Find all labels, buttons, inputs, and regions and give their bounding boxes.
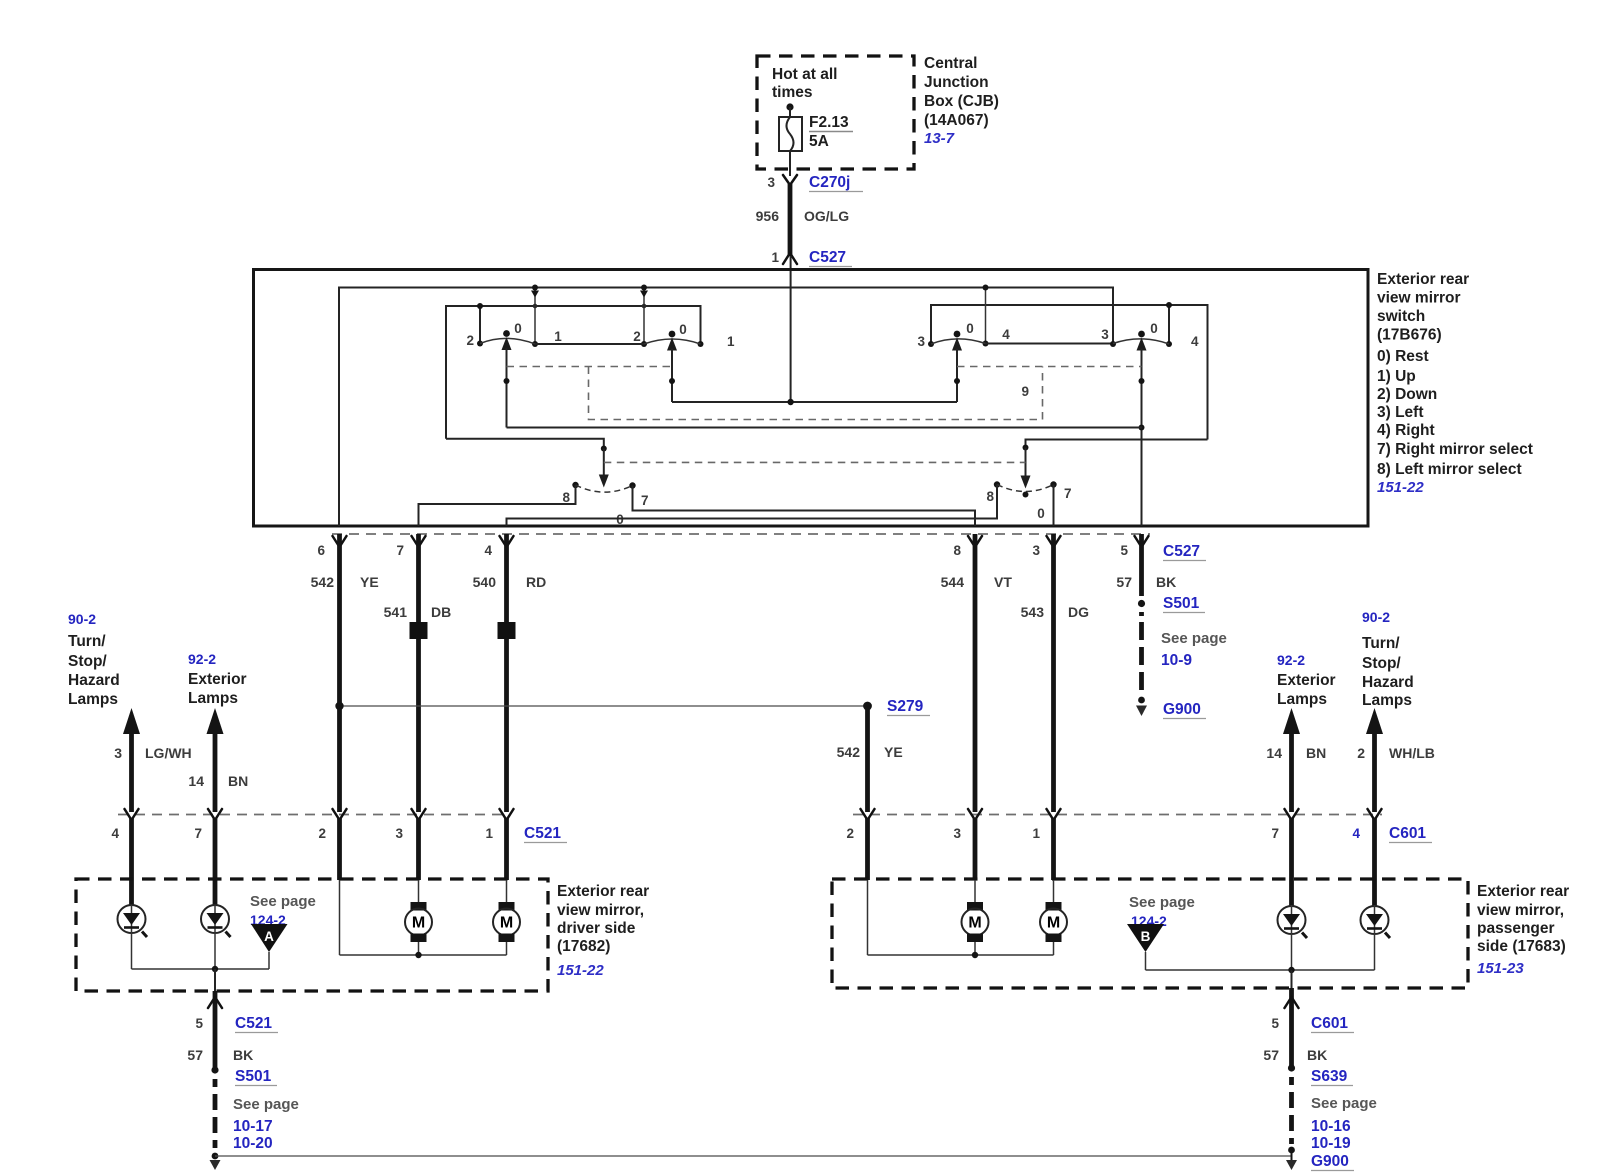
svg-text:LG/WH: LG/WH: [145, 745, 192, 761]
indicator lamp L2 (driver exterior): [201, 905, 231, 969]
Exterior rear view mirror switch enclosure (17B676): [254, 270, 1369, 527]
svg-text:Exterior rear: Exterior rear: [1377, 271, 1469, 288]
svg-text:0) Rest: 0) Rest: [1377, 348, 1429, 365]
svg-text:540: 540: [473, 574, 497, 590]
wire 544 VT (pin 8): [941, 534, 1013, 812]
svg-text:7: 7: [194, 826, 202, 841]
svg-text:C527: C527: [1163, 543, 1200, 560]
wire 57 BK to S639: [1263, 1047, 1376, 1152]
svg-text:10-17: 10-17: [233, 1118, 273, 1135]
svg-text:(17B676): (17B676): [1377, 327, 1442, 344]
svg-text:5: 5: [195, 1016, 203, 1031]
svg-text:0: 0: [679, 322, 687, 337]
svg-text:2: 2: [1357, 745, 1365, 761]
node: right rail y305: [928, 305, 1208, 440]
svg-text:Hazard: Hazard: [1362, 674, 1414, 691]
passenger motors common: [868, 880, 1054, 958]
wire 541 DB (pin 7) with splice: [384, 534, 452, 812]
svg-text:BN: BN: [228, 773, 248, 789]
left feeds: 92-2 Exterior Lamps: [188, 651, 247, 707]
ground reference triangle B: [1127, 894, 1195, 970]
switch contact bar 2 (left pair): [477, 303, 483, 347]
Exterior rear view mirror driver side dashed box: [76, 879, 548, 991]
svg-text:3) Left: 3) Left: [1377, 404, 1424, 421]
svg-text:M: M: [968, 915, 981, 932]
wire 57 BK (pin 5) to S501/G900: [1116, 534, 1226, 719]
svg-text:4: 4: [1191, 334, 1199, 349]
svg-text:WH/LB: WH/LB: [1389, 745, 1435, 761]
svg-text:3: 3: [917, 334, 925, 349]
svg-text:side (17683): side (17683): [1477, 938, 1566, 955]
selector B contact 8 lead to pin 4 wire: [507, 485, 998, 527]
svg-text:8: 8: [953, 543, 961, 558]
wire 14 BN up-arrow: [188, 708, 248, 812]
svg-text:C601: C601: [1389, 825, 1426, 842]
svg-text:C527: C527: [809, 249, 846, 266]
wire 543 DG (pin 3): [1021, 534, 1089, 812]
motor M4 passenger horizontal: [1040, 880, 1067, 955]
svg-text:BK: BK: [233, 1047, 253, 1063]
wire 14 BN up-arrow (passenger): [1266, 708, 1326, 812]
svg-text:G900: G900: [1311, 1153, 1349, 1170]
center feed junction: [672, 399, 957, 405]
svg-text:4: 4: [1352, 826, 1360, 841]
svg-text:Exterior rear: Exterior rear: [1477, 883, 1569, 900]
svg-text:3: 3: [767, 175, 775, 190]
motor M1 driver vertical: [405, 880, 432, 955]
svg-text:4: 4: [1002, 327, 1010, 342]
wire 57 BK to S501 left: [187, 1047, 298, 1152]
feed to selector B (right): [1021, 440, 1208, 489]
connector C270j pin 3: [767, 174, 863, 192]
svg-text:Exterior rear: Exterior rear: [557, 883, 649, 900]
svg-text:S639: S639: [1311, 1068, 1348, 1085]
svg-text:Central: Central: [924, 55, 977, 72]
svg-text:(17682): (17682): [557, 938, 610, 955]
svg-text:See page: See page: [233, 1096, 299, 1113]
splice S279 tap line: [335, 698, 930, 716]
indicator lamp L3 (passenger exterior): [1278, 905, 1308, 970]
switch S3 left/right rocker : contacts 3-0: [917, 321, 1010, 402]
svg-text:passenger: passenger: [1477, 920, 1555, 937]
svg-text:Exterior: Exterior: [1277, 672, 1336, 689]
connector C527 pin 1: [771, 249, 852, 267]
wire from C527 into switch: [790, 256, 792, 402]
svg-text:B: B: [1141, 929, 1151, 944]
svg-text:13-7: 13-7: [924, 130, 955, 147]
svg-text:4: 4: [111, 826, 119, 841]
svg-text:C601: C601: [1311, 1015, 1348, 1032]
svg-text:C521: C521: [524, 825, 561, 842]
svg-text:956: 956: [756, 208, 780, 224]
svg-text:YE: YE: [884, 744, 903, 760]
svg-text:57: 57: [1116, 574, 1132, 590]
svg-text:92-2: 92-2: [1277, 652, 1305, 668]
svg-text:4: 4: [484, 543, 492, 558]
svg-text:RD: RD: [526, 574, 546, 590]
svg-text:0: 0: [1150, 321, 1158, 336]
svg-text:Exterior: Exterior: [188, 671, 247, 688]
driver mirror wires into box: [132, 818, 507, 906]
svg-text:0: 0: [1037, 506, 1045, 521]
svg-text:See page: See page: [1129, 894, 1195, 911]
ground reference triangle A: [250, 893, 316, 969]
svg-text:3: 3: [1032, 543, 1040, 558]
svg-text:5A: 5A: [809, 133, 829, 150]
svg-text:F2.13: F2.13: [809, 114, 849, 131]
svg-text:1: 1: [554, 329, 562, 344]
svg-text:90-2: 90-2: [1362, 609, 1390, 625]
svg-text:VT: VT: [994, 574, 1012, 590]
svg-text:1) Up: 1) Up: [1377, 368, 1416, 385]
svg-text:BN: BN: [1306, 745, 1326, 761]
svg-text:S279: S279: [887, 698, 924, 715]
svg-text:5: 5: [1120, 543, 1128, 558]
connector C521 dashed row: [111, 809, 567, 843]
node: left rail y306: [446, 306, 704, 439]
feed to selector A (left): [446, 439, 609, 488]
switch S4 left/right rocker : contacts 3-0-4: [1101, 321, 1199, 526]
svg-text:90-2: 90-2: [68, 611, 96, 627]
svg-text:1: 1: [1032, 826, 1040, 841]
driver lamps common return: [132, 966, 270, 993]
motor M3 passenger vertical: [962, 880, 989, 955]
svg-text:Turn/: Turn/: [1362, 635, 1400, 652]
svg-text:7: 7: [396, 543, 404, 558]
connector C601 pin 5 below box: [1271, 988, 1354, 1068]
svg-text:view mirror: view mirror: [1377, 290, 1461, 307]
Exterior rear view mirror passenger side dashed box: [832, 879, 1468, 988]
ground G900 right: [1286, 1147, 1354, 1171]
svg-text:9: 9: [1021, 384, 1029, 399]
svg-text:1: 1: [485, 826, 493, 841]
svg-text:1: 1: [727, 334, 735, 349]
svg-text:M: M: [1047, 915, 1060, 932]
svg-text:Hot at all: Hot at all: [772, 66, 837, 83]
svg-text:8) Left mirror select: 8) Left mirror select: [1377, 461, 1522, 478]
svg-text:2) Down: 2) Down: [1377, 386, 1437, 403]
CJB title text: [924, 55, 999, 147]
motor M2 driver horizontal: [493, 880, 520, 955]
selector switch A : mirror select 8-0-7: [562, 482, 648, 527]
svg-text:7) Right mirror select: 7) Right mirror select: [1377, 441, 1533, 458]
svg-text:A: A: [264, 929, 274, 944]
switch S2 up/down rocker (passenger) : contacts 1-2...0-1: [554, 322, 735, 402]
selector A contact 7 lead to pin 8: [633, 486, 976, 527]
svg-text:driver side: driver side: [557, 920, 636, 937]
svg-text:0: 0: [966, 321, 974, 336]
svg-text:(14A067): (14A067): [924, 112, 989, 129]
svg-text:151-23: 151-23: [1477, 960, 1524, 977]
svg-text:544: 544: [941, 574, 965, 590]
svg-text:S501: S501: [235, 1068, 272, 1085]
wire 956 OG/LG: [756, 184, 850, 256]
svg-text:Lamps: Lamps: [1277, 691, 1327, 708]
svg-text:Junction: Junction: [924, 74, 989, 91]
passenger mirror wires into box: [868, 818, 1375, 906]
ground node left with bus to G900: [210, 1153, 1292, 1170]
passenger box label: [1477, 883, 1569, 977]
svg-text:3: 3: [953, 826, 961, 841]
connector C527 dashed row: [332, 533, 1150, 535]
C527 pin arrows and labels: [317, 536, 1206, 561]
right feeds: 92-2 Exterior Lamps: [1277, 652, 1336, 708]
wiper cross-link S1 to S4: [507, 427, 1143, 429]
svg-text:8: 8: [986, 489, 994, 504]
svg-text:10-20: 10-20: [233, 1135, 273, 1152]
fuse F2.13 5A: [779, 103, 853, 176]
svg-text:0: 0: [514, 321, 522, 336]
driver box label: [557, 883, 649, 979]
svg-text:See page: See page: [250, 893, 316, 910]
svg-text:7: 7: [641, 493, 649, 508]
svg-text:2: 2: [318, 826, 326, 841]
svg-text:542: 542: [311, 574, 335, 590]
svg-text:10-19: 10-19: [1311, 1135, 1351, 1152]
svg-text:541: 541: [384, 604, 408, 620]
svg-text:M: M: [412, 915, 425, 932]
svg-text:S501: S501: [1163, 595, 1200, 612]
svg-text:2: 2: [633, 329, 641, 344]
svg-text:6: 6: [317, 543, 325, 558]
svg-text:view mirror,: view mirror,: [557, 902, 644, 919]
svg-text:switch: switch: [1377, 308, 1425, 325]
svg-text:Stop/: Stop/: [1362, 655, 1401, 672]
svg-text:M: M: [500, 915, 513, 932]
svg-text:5: 5: [1271, 1016, 1279, 1031]
svg-text:Lamps: Lamps: [1362, 692, 1412, 709]
left feeds: 90-2 Turn/Stop/Hazard Lamps: [68, 611, 120, 708]
svg-text:10-16: 10-16: [1311, 1118, 1351, 1135]
svg-text:DB: DB: [431, 604, 451, 620]
svg-text:Stop/: Stop/: [68, 653, 107, 670]
svg-text:92-2: 92-2: [188, 651, 216, 667]
svg-text:57: 57: [187, 1047, 203, 1063]
passenger lamps common return: [1146, 967, 1375, 990]
mechanical gang dashed links: [507, 367, 1142, 420]
svg-text:G900: G900: [1163, 701, 1201, 718]
svg-text:C270j: C270j: [809, 174, 850, 191]
svg-text:Turn/: Turn/: [68, 633, 106, 650]
svg-text:See page: See page: [1311, 1095, 1377, 1112]
svg-text:Box (CJB): Box (CJB): [924, 93, 999, 110]
selector gang dashed link: [604, 461, 1026, 463]
svg-text:57: 57: [1263, 1047, 1279, 1063]
svg-text:3: 3: [395, 826, 403, 841]
switch contact bar 4 (right pair): [1166, 302, 1172, 347]
svg-text:YE: YE: [360, 574, 379, 590]
svg-text:542: 542: [837, 744, 861, 760]
svg-text:10-9: 10-9: [1161, 652, 1192, 669]
wire 542 YE to passenger mirror: [837, 706, 903, 812]
svg-text:times: times: [772, 84, 813, 101]
switch S1 up/down rocker (driver) : contacts 2-0: [466, 321, 535, 428]
svg-text:3: 3: [1101, 327, 1109, 342]
selector A contact 8 lead to pin 7: [419, 485, 576, 526]
svg-text:BK: BK: [1307, 1047, 1327, 1063]
svg-text:14: 14: [1266, 745, 1282, 761]
svg-text:view mirror,: view mirror,: [1477, 902, 1564, 919]
wire 540 RD (pin 4) with splice: [473, 534, 547, 812]
svg-text:C521: C521: [235, 1015, 272, 1032]
svg-text:Lamps: Lamps: [188, 690, 238, 707]
svg-text:Hazard: Hazard: [68, 672, 120, 689]
svg-text:151-22: 151-22: [1377, 479, 1424, 496]
svg-text:Lamps: Lamps: [68, 691, 118, 708]
svg-text:1: 1: [771, 250, 779, 265]
svg-text:2: 2: [846, 826, 854, 841]
svg-text:543: 543: [1021, 604, 1045, 620]
selector switch B : mirror select 8-0-7: [986, 481, 1071, 521]
bracket links from common rail (pins 0 contacts): [531, 285, 1116, 348]
svg-text:14: 14: [188, 773, 204, 789]
svg-text:OG/LG: OG/LG: [804, 208, 849, 224]
svg-text:See page: See page: [1161, 630, 1227, 647]
wire 542 YE (pin 6): [311, 534, 379, 812]
selector B contact 7 lead to pin 3: [1053, 485, 1055, 527]
svg-text:8: 8: [562, 490, 570, 505]
svg-text:7: 7: [1271, 826, 1279, 841]
indicator lamp L1 (driver turn): [118, 905, 148, 969]
node: common rail y287 (pin 6 feed): [339, 288, 1113, 527]
svg-text:151-22: 151-22: [557, 962, 604, 979]
switch legend text: [1377, 271, 1533, 496]
connector C601 dashed row: [846, 809, 1432, 843]
indicator lamp L4 (passenger turn): [1361, 905, 1391, 970]
svg-text:DG: DG: [1068, 604, 1089, 620]
right feeds: 90-2 Turn/Stop/Hazard Lamps: [1362, 609, 1414, 709]
connector C521 pin 5 below box: [195, 991, 278, 1070]
svg-text:BK: BK: [1156, 574, 1176, 590]
svg-text:7: 7: [1064, 486, 1072, 501]
svg-text:3: 3: [114, 745, 122, 761]
Central Junction Box (CJB) dashed enclosure: [757, 56, 914, 169]
svg-text:4) Right: 4) Right: [1377, 422, 1435, 439]
wire 2 WH/LB up-arrow (passenger): [1357, 708, 1435, 812]
wire 3 LG/WH up-arrow: [114, 708, 191, 812]
svg-text:2: 2: [466, 333, 474, 348]
driver motors common: [340, 880, 507, 958]
